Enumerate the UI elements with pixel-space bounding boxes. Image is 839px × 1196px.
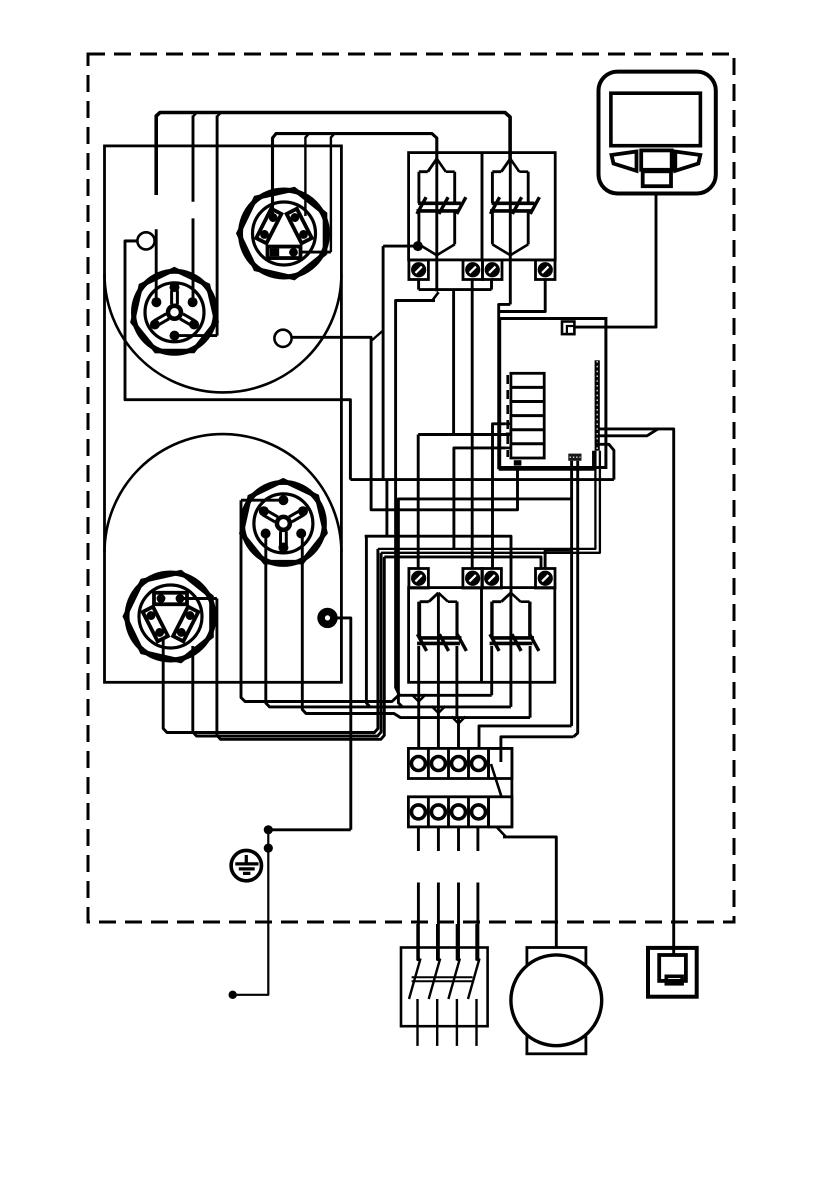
button left	[612, 152, 637, 171]
breaker pole 2	[429, 924, 441, 1046]
wire bstar1	[241, 499, 282, 502]
wire K4 left branch	[490, 646, 493, 695]
wire K3 center	[437, 593, 440, 707]
stub pin 1	[506, 422, 511, 425]
wire stub2 drop	[417, 435, 420, 570]
wire K3 left branch	[417, 646, 420, 695]
junction dot g2	[264, 844, 273, 853]
wire T3 down	[490, 280, 493, 290]
PCB top connector pin	[567, 326, 575, 334]
wire K4 right branch	[529, 646, 532, 718]
aux box	[648, 948, 697, 997]
wire H479	[350, 478, 614, 481]
wire grommet down	[335, 618, 351, 830]
wire stub3	[454, 448, 506, 549]
wire bus1	[400, 694, 492, 697]
relay block	[511, 373, 544, 458]
terminal T3	[483, 260, 503, 280]
wire bstar1 down	[241, 500, 399, 701]
terminal T5	[409, 569, 429, 589]
thermal switch stub	[125, 239, 137, 242]
wire T2 down long	[471, 280, 474, 570]
wire motor feed	[503, 837, 556, 948]
ring u2	[431, 757, 445, 771]
wire cell4 feed	[479, 726, 572, 749]
strip divider u1	[447, 748, 450, 778]
terminal T6	[463, 569, 483, 589]
wire bstar2 down	[266, 534, 511, 707]
wire stub1	[493, 424, 506, 569]
motor connector M4 (bottom fan, pads)	[125, 572, 214, 661]
wire drop cell1	[417, 695, 420, 748]
wire star2 lower seg	[192, 218, 195, 300]
PCB bottom connector	[568, 454, 581, 461]
wire strip out 3b	[457, 883, 460, 962]
breaker pole 3	[448, 924, 460, 1046]
PCB bottom-left tab	[514, 460, 522, 465]
wire strip out 2b	[437, 883, 440, 962]
wire bus down mid	[452, 290, 455, 435]
contactor box divider 2	[480, 588, 483, 683]
ring u4	[472, 757, 486, 771]
wire jog bevel	[371, 331, 383, 342]
terminal T4	[536, 260, 556, 280]
strip side box	[489, 748, 512, 827]
strip divider l3	[487, 797, 490, 827]
wire pads3 up	[331, 134, 335, 253]
wire star3 horiz	[175, 334, 217, 337]
wire star2 up	[192, 116, 195, 202]
wire K3 right upper	[455, 602, 458, 637]
wire H556	[384, 557, 541, 569]
button bottom	[643, 171, 671, 186]
wire strip out 1a	[417, 827, 420, 851]
contactor K2 element	[490, 159, 539, 255]
motor connector M1 (top fan, pads)	[239, 189, 328, 278]
wire bpads3 down	[217, 557, 384, 739]
ground symbol	[231, 850, 261, 880]
contactor K1 element	[417, 159, 466, 255]
breaker pole 4	[468, 924, 480, 1046]
motor circle	[511, 955, 602, 1046]
wire K4 center	[509, 593, 512, 707]
joint bus3	[452, 717, 466, 724]
wire ground branch	[268, 828, 351, 831]
terminal T1	[409, 260, 429, 280]
relay block dashed side	[506, 375, 509, 457]
ring l2	[431, 805, 445, 819]
wire drop cell3	[457, 718, 460, 749]
wire pcbC	[596, 444, 614, 479]
wire K1 blade	[432, 292, 439, 301]
wire H552	[381, 451, 600, 553]
wire star3 up	[217, 113, 221, 117]
strip divider l0	[427, 797, 430, 827]
wire pcbB	[599, 429, 658, 436]
wire star1 up	[156, 113, 510, 196]
motor body rect	[527, 948, 586, 1054]
PCB top connector	[562, 322, 574, 335]
wire strip out 4b	[476, 883, 479, 962]
aux box tab	[666, 976, 682, 984]
fan scroll top (lower semicircle)	[105, 274, 342, 392]
contactor K3 element	[417, 593, 466, 651]
wire T1 down	[417, 280, 420, 290]
terminal T7	[482, 569, 502, 589]
aux box inner	[659, 955, 686, 981]
wire disp drop	[574, 194, 656, 328]
wire H536	[365, 536, 511, 592]
wire bpads3 h	[183, 597, 217, 600]
button center	[641, 150, 672, 169]
wire star1 lower seg	[155, 229, 158, 300]
relay block divider 2	[511, 400, 544, 403]
wire stub2 line	[418, 433, 511, 436]
terminal T8	[536, 569, 556, 589]
junction dot g1	[264, 825, 273, 834]
breaker trip bar	[412, 977, 473, 981]
display unit body	[599, 72, 716, 194]
thermal switch circle top-left	[137, 232, 154, 249]
contactor box divider	[481, 153, 484, 260]
stub pin 3	[506, 447, 511, 450]
wire V386 drop	[385, 480, 388, 537]
wire pcb conn pin1	[570, 461, 573, 726]
wire star3 down	[216, 116, 219, 336]
wire K3 left upper	[417, 602, 420, 637]
ring l4	[472, 805, 486, 819]
wire H548	[378, 451, 596, 549]
wire K3 right branch	[455, 646, 458, 718]
wire pcbA	[599, 429, 673, 948]
contactor box K1K2	[409, 153, 556, 260]
joint bus2	[431, 706, 445, 713]
strip divider u0	[427, 748, 430, 778]
wire R366	[366, 536, 370, 707]
wire strip out 1b	[417, 883, 420, 962]
contactor K4 element	[490, 593, 539, 651]
wire V383	[382, 246, 385, 480]
terminal strip upper row	[408, 748, 512, 778]
wire circle2 path	[292, 337, 518, 510]
ring u3	[452, 757, 466, 771]
display screen	[611, 93, 701, 146]
breaker box	[401, 948, 488, 1027]
wire H499	[398, 499, 572, 707]
wire sq4 feed	[545, 550, 572, 569]
sensor circle mid	[274, 330, 291, 347]
button right	[675, 152, 700, 171]
stub pin 2	[506, 432, 511, 435]
wire drop cell2	[437, 707, 440, 749]
wire star2 up upper	[193, 113, 197, 117]
wire T4 down	[499, 280, 546, 312]
joint bus1	[412, 695, 426, 702]
wire pcb conn pin2	[574, 461, 578, 737]
relay block divider 1	[511, 386, 544, 389]
strip divider u2	[467, 748, 470, 778]
wire to pins	[499, 451, 594, 470]
wire bpads2 down	[193, 553, 381, 736]
wire K4 left upper	[490, 602, 493, 637]
wire K4 right upper	[529, 602, 532, 637]
wire strip out 2a	[437, 827, 440, 851]
relay block divider 5	[511, 442, 544, 445]
relay block divider 4	[511, 428, 544, 431]
contactor box K3K4	[409, 588, 555, 683]
ring u1	[411, 757, 425, 771]
panel box	[105, 146, 342, 682]
junction dot K1	[413, 241, 423, 251]
wire blade feed	[501, 737, 574, 762]
wire strip out 4a	[476, 827, 479, 851]
disconnect blade 2	[497, 828, 506, 837]
wire aux entry	[672, 948, 675, 955]
motor connector M2 (top fan, star)	[133, 269, 217, 353]
wire bstar3 down	[302, 534, 530, 718]
wire T1-T3 bus	[419, 288, 492, 291]
PCB outline	[500, 319, 606, 468]
wire circle1 path	[125, 241, 350, 480]
strip divider l1	[447, 797, 450, 827]
wire bpads1 down	[163, 549, 378, 733]
breaker pole 1	[409, 924, 421, 1046]
black grommet	[317, 608, 337, 628]
contactor K1 center wire	[435, 159, 438, 292]
contactor K2 center wire	[509, 159, 512, 305]
wire pads1 up	[273, 134, 437, 215]
pin header strip	[595, 360, 600, 450]
strip divider l2	[467, 797, 470, 827]
fan scroll bottom (upper semicircle)	[105, 434, 342, 552]
motor connector M3 (bottom fan, star)	[242, 480, 326, 564]
wire strip out 3a	[457, 827, 460, 851]
wire K1 tap left	[383, 245, 418, 248]
wire ground down	[233, 830, 269, 995]
wire pads2 up	[305, 134, 309, 216]
enclosure boundary (dashed)	[88, 54, 734, 922]
terminal strip lower row	[408, 797, 512, 827]
wire K1 out	[396, 301, 435, 696]
terminal T2	[463, 260, 483, 280]
relay block divider 3	[511, 414, 544, 417]
ring l3	[452, 805, 466, 819]
wire pads3 horiz	[301, 251, 331, 254]
ring l1	[411, 805, 425, 819]
terminal dot end	[229, 991, 237, 999]
strip divider u3	[487, 748, 490, 778]
wire K2 center out	[499, 304, 511, 469]
disconnect blade	[491, 764, 502, 797]
